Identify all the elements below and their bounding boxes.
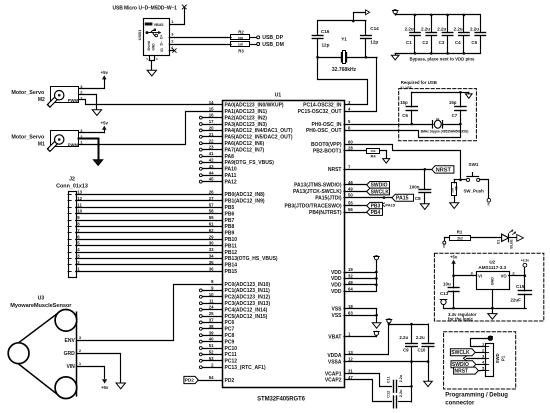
svg-text:C3: C3 xyxy=(439,40,445,45)
svg-text:PA5(ADC12_IN5/DAC2_OUT): PA5(ADC12_IN5/DAC2_OUT) xyxy=(225,135,293,141)
U1 pin 57 PB5 xyxy=(225,205,235,211)
svg-text:C13: C13 xyxy=(440,291,449,296)
svg-text:C5: C5 xyxy=(471,40,477,45)
svg-text:for the logic: for the logic xyxy=(448,316,473,321)
U1 pin 26 PB0 xyxy=(225,192,265,198)
svg-text:PA13(JTCK-SWCLK): PA13(JTCK-SWCLK) xyxy=(293,189,342,195)
svg-text:SW_Push: SW_Push xyxy=(464,188,485,193)
svg-text:39: 39 xyxy=(209,330,214,335)
svg-text:C12: C12 xyxy=(386,391,390,398)
svg-text:PA0(ADC123_IN0/WKUP): PA0(ADC123_IN0/WKUP) xyxy=(225,103,284,109)
net label SWDIO xyxy=(367,182,390,189)
capacitor C4 xyxy=(454,14,470,55)
no-connect flag on VBUS xyxy=(182,5,186,9)
power flag bypass rail xyxy=(392,10,398,15)
capacitor C6 xyxy=(400,92,417,124)
svg-text:VBAT: VBAT xyxy=(328,334,341,340)
svg-text:NRST: NRST xyxy=(328,167,342,173)
svg-text:59: 59 xyxy=(209,215,214,220)
U3 GRD wire to ground xyxy=(77,348,121,382)
svg-text:PB10: PB10 xyxy=(225,237,238,243)
required for USB note xyxy=(400,80,437,89)
svg-text:PB3(JTDO/TRACESWO): PB3(JTDO/TRACESWO) xyxy=(285,203,342,209)
wire PB2-BOOT1 pin 28 to R4 xyxy=(344,150,367,152)
svg-text:14: 14 xyxy=(209,100,214,105)
svg-text:29: 29 xyxy=(209,234,214,239)
ground for R4 xyxy=(383,159,390,164)
svg-text:D1: D1 xyxy=(497,240,501,244)
svg-text:PC6: PC6 xyxy=(225,320,235,326)
svg-text:PA15(JTDI): PA15(JTDI) xyxy=(315,195,342,201)
svg-text:40: 40 xyxy=(209,337,214,342)
wire SWDIO pin 46 xyxy=(344,184,367,186)
U1 pin 44 PA11 xyxy=(199,170,236,179)
capacitor C8 100n xyxy=(409,169,430,204)
svg-text:PC5(ADC12_IN15): PC5(ADC12_IN15) xyxy=(225,314,268,320)
wire J2 pin 2 to MCU pin 35 xyxy=(76,260,222,265)
svg-text:2.2u: 2.2u xyxy=(416,335,425,340)
U1 pin 46 PA13(JTMS-SWDIO) label xyxy=(294,180,353,189)
svg-text:C16: C16 xyxy=(321,29,330,34)
svg-text:15p: 15p xyxy=(400,100,408,105)
svg-text:54: 54 xyxy=(209,375,214,380)
svg-text:R1: R1 xyxy=(457,229,463,234)
servo M1 labels xyxy=(11,135,45,148)
svg-text:PC10: PC10 xyxy=(225,346,238,352)
svg-text:100n: 100n xyxy=(409,184,420,189)
servo M2 labels xyxy=(11,90,45,103)
ground for R5 xyxy=(450,203,459,209)
capacitor C10 xyxy=(416,324,434,362)
U1 pin 41 PA8 xyxy=(199,151,234,160)
servo M2 body xyxy=(50,84,83,105)
svg-text:VDD: VDD xyxy=(331,270,342,276)
svg-text:SW1: SW1 xyxy=(469,162,479,167)
svg-text:USB_DM: USB_DM xyxy=(262,42,284,48)
U1 pin 63 VSS label xyxy=(331,310,353,319)
svg-text:12p: 12p xyxy=(370,39,378,44)
svg-text:41: 41 xyxy=(209,151,214,156)
svg-text:30: 30 xyxy=(209,241,214,246)
svg-text:J2: J2 xyxy=(69,177,75,183)
svg-text:PB0(ADC12_IN8): PB0(ADC12_IN8) xyxy=(225,192,265,198)
svg-text:PB11: PB11 xyxy=(225,243,237,249)
svg-text:U–D–M5DD–W–1: U–D–M5DD–W–1 xyxy=(139,5,178,11)
net label PA15 xyxy=(392,194,414,201)
+5v power in regulator xyxy=(450,254,458,275)
U3 VIN wire to +5v xyxy=(77,361,105,379)
USB connector U S B 1 body xyxy=(137,19,169,56)
U1 pin 12 VSSA label xyxy=(328,357,354,366)
svg-text:PA15: PA15 xyxy=(396,196,409,202)
U1 pin 34 PB13 xyxy=(225,256,278,262)
svg-text:PC15-OSC32_OUT: PC15-OSC32_OUT xyxy=(298,109,342,115)
svg-text:38: 38 xyxy=(209,324,214,329)
USB connector title xyxy=(113,5,178,11)
svg-text:GRD: GRD xyxy=(64,351,76,357)
capacitor C5 xyxy=(470,15,486,53)
svg-text:34: 34 xyxy=(209,254,214,259)
svg-text:GND: GND xyxy=(490,277,494,285)
svg-text:49: 49 xyxy=(348,186,353,191)
wire crystal to C7 xyxy=(443,123,462,126)
U1 pin 59 PB7 xyxy=(225,218,235,224)
U1 pin 30 PB11 xyxy=(225,243,237,249)
svg-text:13: 13 xyxy=(77,190,82,195)
wire R1 to D1 xyxy=(471,237,502,239)
svg-text:35: 35 xyxy=(209,260,214,265)
svg-text:22: 22 xyxy=(209,138,214,143)
ground flag bypass rail xyxy=(391,53,399,60)
HSE top rail xyxy=(412,91,469,94)
U1 pin 55 PB3(JTDO/TRACESWO) label xyxy=(285,201,354,210)
svg-text:8MHz 10ppm (X8535HM50B35G): 8MHz 10ppm (X8535HM50B35G) xyxy=(421,130,469,134)
sensor U3 labels xyxy=(10,296,72,310)
wire PB4 pin 56 xyxy=(344,212,367,214)
svg-text:45: 45 xyxy=(209,177,214,182)
svg-text:GND: GND xyxy=(152,43,156,51)
U1 pin 3 PC14-OSC32_IN label xyxy=(303,100,351,109)
svg-text:PC11: PC11 xyxy=(225,352,237,358)
svg-text:52: 52 xyxy=(209,350,214,355)
svg-text:51: 51 xyxy=(209,343,214,348)
svg-text:22R: 22R xyxy=(238,43,244,47)
U1 pin 39 PC8 xyxy=(199,330,234,339)
sensor U3 body xyxy=(8,310,77,399)
svg-text:PA4(ADC12_IN4/DAC1_OUT): PA4(ADC12_IN4/DAC1_OUT) xyxy=(225,128,293,134)
svg-text:PD2: PD2 xyxy=(225,378,235,384)
wire BOOT0 pin 60 xyxy=(345,145,461,180)
power flag VDDA xyxy=(386,319,392,324)
svg-text:PB2-BOOT1: PB2-BOOT1 xyxy=(313,148,342,154)
svg-text:PC13_(RTC_AF1): PC13_(RTC_AF1) xyxy=(225,365,266,371)
bypass note text xyxy=(410,57,476,62)
svg-text:PWM: PWM xyxy=(68,143,79,148)
local label PA15 small xyxy=(382,202,396,207)
net label SWDIO debug xyxy=(451,361,486,368)
svg-text:PC7: PC7 xyxy=(225,327,235,333)
net label PB4 xyxy=(367,209,383,216)
svg-text:PH0-OSC_IN: PH0-OSC_IN xyxy=(311,122,341,128)
svg-text:+5v: +5v xyxy=(101,385,109,390)
U1 pin 13 VDDA label xyxy=(327,350,353,359)
svg-text:21: 21 xyxy=(209,132,214,137)
svg-text:NRST: NRST xyxy=(436,167,452,173)
ground flag HSE xyxy=(466,92,473,98)
U1 pin 51 PC10 xyxy=(199,343,237,352)
U1 pin 15 PA1 xyxy=(225,109,268,115)
svg-text:PC0(ADC123_IN10): PC0(ADC123_IN10) xyxy=(225,282,271,288)
M1 pin 3 wire to +5v xyxy=(79,132,105,134)
U1 pin 50 PA15(JTDI) label xyxy=(315,193,353,202)
wire J2 pin 1 to MCU pin 36 xyxy=(76,266,222,271)
U1 pin 16 PA2 xyxy=(199,113,267,122)
USB pin 1 VBUS wire to no-connect xyxy=(170,9,185,25)
U1 pin 24 PC4 xyxy=(199,305,267,314)
wire PH0-OSC_IN to C6 and crystal xyxy=(344,123,433,126)
svg-text:PH0-OSC_OUT: PH0-OSC_OUT xyxy=(306,128,342,134)
svg-text:PA15: PA15 xyxy=(385,202,395,207)
svg-text:USB1: USB1 xyxy=(137,29,142,40)
svg-text:+5v: +5v xyxy=(450,254,458,259)
U1 pin 17 PA3 xyxy=(199,119,267,128)
svg-text:VCAP1: VCAP1 xyxy=(325,371,342,377)
wire J2 pin 3 to MCU pin 34 xyxy=(76,254,222,259)
svg-text:58: 58 xyxy=(209,209,214,214)
svg-text:22R: 22R xyxy=(238,36,244,40)
U1 pin 1 VBAT label xyxy=(328,332,351,341)
+5v power below U3 pointing down xyxy=(101,379,109,390)
svg-text:10u: 10u xyxy=(443,281,451,286)
U1 pin 4 PC15-OSC32_OUT label xyxy=(298,106,351,115)
svg-text:27: 27 xyxy=(209,196,214,201)
svg-text:C6: C6 xyxy=(402,113,408,118)
SW1 no-connect stub xyxy=(480,180,491,206)
USB shield and GND pins xyxy=(146,56,158,70)
VSSA wire xyxy=(344,360,429,363)
svg-text:R5: R5 xyxy=(454,186,458,190)
resistor R5 10k vertical xyxy=(451,180,461,203)
R1 input stub xyxy=(443,238,450,248)
bypass top rail xyxy=(395,14,480,16)
svg-text:ENV: ENV xyxy=(65,338,76,344)
svg-text:32: 32 xyxy=(348,274,353,279)
svg-text:VSS: VSS xyxy=(331,307,342,313)
svg-text:R2: R2 xyxy=(238,29,244,34)
svg-text:NRST: NRST xyxy=(455,368,469,374)
wire +5v to VI xyxy=(452,274,476,277)
svg-text:VSS: VSS xyxy=(331,313,342,319)
svg-text:VI: VI xyxy=(478,274,482,279)
svg-text:C1: C1 xyxy=(406,40,412,45)
svg-text:15: 15 xyxy=(209,106,214,111)
svg-text:PB13(OTG_HS_VBUS): PB13(OTG_HS_VBUS) xyxy=(225,256,278,262)
svg-text:USB Micro: USB Micro xyxy=(113,5,137,11)
wire NRST pin 7 xyxy=(344,168,432,171)
net label NRST debug xyxy=(454,367,486,374)
svg-text:U2: U2 xyxy=(489,259,495,264)
svg-text:23: 23 xyxy=(209,145,214,150)
svg-text:33: 33 xyxy=(209,247,214,252)
programming connector note xyxy=(445,393,508,407)
dashed box programming connector xyxy=(444,332,516,389)
net label SWCLK xyxy=(367,188,390,195)
svg-text:PA7(ADC12_IN7): PA7(ADC12_IN7) xyxy=(225,147,265,153)
svg-text:19: 19 xyxy=(348,267,353,272)
U1 pin 38 PC7 xyxy=(199,324,234,333)
wire J2 pin 10 to MCU pin 58 xyxy=(76,209,222,214)
M2 pin 2 wire to ground xyxy=(79,95,97,110)
wire D1 to power arrow xyxy=(509,237,517,239)
svg-text:D−: D− xyxy=(160,41,164,45)
svg-text:R3: R3 xyxy=(238,48,244,53)
capacitor C2 xyxy=(421,14,437,55)
svg-text:26: 26 xyxy=(209,190,214,195)
M1 PWM wire to PA1 xyxy=(79,106,223,144)
svg-text:10k: 10k xyxy=(370,149,375,153)
wire PB3 pin 55 xyxy=(344,205,367,207)
svg-text:C7: C7 xyxy=(452,113,458,118)
U1 pin 45 PA12 xyxy=(199,177,236,186)
VDDA wire xyxy=(345,323,391,355)
wire J2 pin 4 to MCU pin 33 xyxy=(76,247,222,252)
svg-text:Bypass, place next to VDD pins: Bypass, place next to VDD pins xyxy=(410,57,476,62)
wire J2 pin 5 to MCU pin 30 xyxy=(76,241,222,246)
svg-text:PC4(ADC12_IN14): PC4(ADC12_IN14) xyxy=(225,307,268,313)
U1 pin 40 PC9 xyxy=(199,337,234,346)
regulator U2 AMS1117-3.3 xyxy=(470,259,515,289)
svg-text:PC1(ADC123_IN11): PC1(ADC123_IN11) xyxy=(225,288,271,294)
U3 ENV wire to PC0 xyxy=(77,279,223,340)
svg-text:BOOT0(VPP): BOOT0(VPP) xyxy=(311,142,342,148)
P1 pin1 wire to power xyxy=(471,339,489,347)
U1 pin 20 PA4 xyxy=(199,126,292,135)
svg-text:25: 25 xyxy=(209,311,214,316)
svg-text:PA13(JTMS-SWDIO): PA13(JTMS-SWDIO) xyxy=(294,183,342,189)
U1 pin 42 PA9 xyxy=(199,158,274,167)
svg-text:VBUS: VBUS xyxy=(154,23,165,27)
power flag at crystal top xyxy=(354,10,370,21)
svg-text:PA8: PA8 xyxy=(225,154,235,160)
svg-text:43: 43 xyxy=(209,164,214,169)
svg-text:32.768kHz: 32.768kHz xyxy=(332,67,357,73)
svg-text:VO: VO xyxy=(501,274,508,279)
U1 pin 64 VDD label xyxy=(331,286,353,295)
svg-text:C8: C8 xyxy=(415,196,421,201)
U1 pin 23 PA7 xyxy=(199,145,264,154)
ground for C8 xyxy=(420,204,429,210)
U1 pin 35 PB14 xyxy=(225,263,238,269)
capacitor C9 xyxy=(399,324,417,362)
M1 pin 2 wire to ground bold xyxy=(79,139,99,160)
net port USB_DP xyxy=(257,35,284,41)
svg-text:2.2u: 2.2u xyxy=(437,26,446,31)
svg-text:PC: PC xyxy=(443,244,446,248)
svg-text:2k2: 2k2 xyxy=(457,236,463,240)
svg-text:11: 11 xyxy=(209,298,214,303)
svg-text:53: 53 xyxy=(209,356,214,361)
svg-text:+5v: +5v xyxy=(101,120,109,125)
svg-text:17: 17 xyxy=(209,119,214,124)
svg-text:10: 10 xyxy=(209,292,214,297)
VDDA bypass rail xyxy=(389,323,428,326)
U1 pin 62 PB9 xyxy=(225,231,235,237)
svg-text:2.2u: 2.2u xyxy=(454,26,463,31)
svg-text:P1: P1 xyxy=(500,355,505,361)
svg-text:Motor_Servo: Motor_Servo xyxy=(11,90,45,96)
svg-text:PA12: PA12 xyxy=(225,179,237,185)
+5v power for M2 xyxy=(101,70,109,88)
resistor R3 xyxy=(231,42,257,54)
svg-text:NC: NC xyxy=(486,202,490,206)
wire J2 pin 11 to MCU pin 57 xyxy=(76,202,222,207)
svg-text:ID: ID xyxy=(160,48,164,52)
svg-text:2.2u: 2.2u xyxy=(399,389,403,397)
capacitor C12 xyxy=(386,389,411,408)
svg-text:AMS1117-3.3: AMS1117-3.3 xyxy=(478,265,506,270)
switch SW1 label xyxy=(469,162,479,167)
svg-text:C15: C15 xyxy=(516,284,525,289)
wire PC15 to crystal xyxy=(345,58,377,112)
svg-text:20: 20 xyxy=(209,126,214,131)
U1 pin 2 PC13_ xyxy=(199,362,266,371)
svg-text:PD2: PD2 xyxy=(185,378,195,383)
svg-text:C2: C2 xyxy=(422,40,428,45)
dashed box regulator xyxy=(434,253,543,321)
wire J2 pin 8 to MCU pin 61 xyxy=(76,222,222,227)
svg-text:PB7: PB7 xyxy=(225,218,235,224)
VCAP1 wire to C11 xyxy=(345,374,392,387)
U1 pin 56 PB4(NJTRST) label xyxy=(309,207,353,216)
resistor R2 xyxy=(231,29,257,40)
U1 pin 48 VDD label xyxy=(331,280,353,289)
U1 pin 29 PB10 xyxy=(225,237,238,243)
svg-text:VIN: VIN xyxy=(66,364,75,370)
M2 PWM wire to PA0 xyxy=(79,100,223,105)
USB pin 2 D- wire xyxy=(169,38,231,44)
svg-text:28: 28 xyxy=(348,146,353,151)
USB pin 3 D+ wire xyxy=(169,32,231,38)
svg-text:36: 36 xyxy=(209,266,214,271)
capacitor C15 22uF xyxy=(510,276,531,308)
svg-text:64: 64 xyxy=(348,286,353,291)
svg-text:PB4(NJTRST): PB4(NJTRST) xyxy=(309,210,342,216)
svg-text:PB6: PB6 xyxy=(225,211,235,217)
LED D1 BLUE xyxy=(497,229,516,248)
svg-text:31: 31 xyxy=(348,369,353,374)
ground for USB shield xyxy=(147,70,156,76)
svg-text:PB14: PB14 xyxy=(225,263,238,269)
U1 pin 58 PB6 xyxy=(225,211,235,217)
svg-text:PC8: PC8 xyxy=(225,333,235,339)
U1 pin 49 PA13(JTCK-SWCLK) label xyxy=(293,186,353,195)
svg-text:M2: M2 xyxy=(38,97,45,103)
svg-text:BLUE: BLUE xyxy=(509,239,513,249)
capacitor C7 xyxy=(449,92,466,124)
VSS rail to ground xyxy=(344,309,378,323)
svg-text:connector: connector xyxy=(445,400,475,406)
U1 pin 52 PC11 xyxy=(199,350,237,359)
connector J2 labels xyxy=(56,177,88,190)
svg-text:PA1(ADC123_IN1): PA1(ADC123_IN1) xyxy=(225,109,268,115)
svg-text:2.2u: 2.2u xyxy=(399,335,408,340)
capacitor C13 10u xyxy=(440,276,459,308)
crystal Y1 32.768kHz xyxy=(316,37,377,74)
switch SW1 SW_Push xyxy=(459,173,484,194)
U1 pin 9 PC1 xyxy=(199,286,270,295)
ground for M1 filled xyxy=(93,160,102,166)
wire PA15 pin 50 xyxy=(344,196,392,199)
U1 pin 7 NRST label xyxy=(328,164,351,173)
wire VO to C15 xyxy=(509,274,527,277)
svg-text:2.2u: 2.2u xyxy=(399,374,403,382)
U1 pin 19 VDD label xyxy=(331,267,353,276)
svg-text:R4: R4 xyxy=(370,154,376,159)
net label SWCLK debug xyxy=(450,349,485,356)
wire J2 pin 6 to MCU pin 29 xyxy=(76,234,222,239)
svg-text:PC3(ADC123_IN13): PC3(ADC123_IN13) xyxy=(225,301,271,307)
svg-text:PB8: PB8 xyxy=(225,224,235,230)
svg-text:PC14-OSC32_IN: PC14-OSC32_IN xyxy=(303,103,342,109)
svg-text:63: 63 xyxy=(348,310,353,315)
capacitor C1 xyxy=(405,14,421,55)
U1 pin 6 PH0-OSC_OUT label xyxy=(306,126,351,135)
svg-text:C14: C14 xyxy=(370,26,379,31)
regulator note xyxy=(448,312,477,321)
wire J2 pin 7 to MCU pin 62 xyxy=(76,228,222,233)
svg-text:PC2(ADC123_IN12): PC2(ADC123_IN12) xyxy=(225,295,271,301)
svg-text:C11: C11 xyxy=(386,376,390,383)
